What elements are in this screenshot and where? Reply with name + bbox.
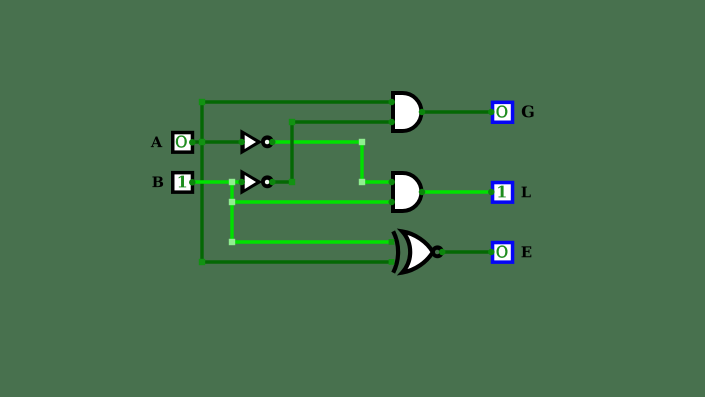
wire: top horizontal A-branch to AND G input 1 — [202, 100, 392, 103]
label G — [522, 105, 534, 117]
junction: B-bus tap at B wire — [229, 179, 235, 185]
wire: NOT1 output horizontal — [273, 140, 363, 143]
wire: B output to NOT2 input — [192, 180, 242, 183]
output pin L — [488, 183, 513, 203]
label L — [522, 187, 531, 198]
output pin E — [488, 243, 513, 263]
input pin A — [173, 133, 196, 153]
wire: vertical A-branch bus — [200, 102, 203, 262]
wire: AND L output to pin L — [422, 190, 491, 193]
value G=0 — [497, 106, 507, 118]
label B — [152, 177, 163, 188]
label A — [151, 137, 163, 148]
XNOR gate U5 (output E) — [389, 231, 446, 272]
value E=0 — [497, 246, 507, 258]
junction: A-bus tap at A wire — [199, 139, 205, 145]
wire: A output to NOT1 input — [192, 140, 242, 143]
wire: XNOR output to pin E — [442, 250, 492, 253]
wire: AND G output to pin G — [422, 110, 491, 113]
value L=1 — [498, 186, 506, 198]
junction: B-bus tap at AND L input wire — [229, 199, 235, 205]
AND gate U4 (output L) — [388, 173, 425, 211]
label E — [522, 246, 532, 257]
value A=0 — [176, 136, 186, 148]
junction: B-bus bottom corner — [229, 239, 235, 245]
AND gate U3 (output G) — [388, 93, 425, 131]
inverter U1 (NOT gate, A row) — [238, 129, 275, 155]
input pin B — [173, 173, 196, 193]
wire: bottom horizontal A-branch to XNOR input 2 — [202, 260, 392, 263]
wire: vertical B-branch bus — [230, 182, 233, 242]
inverter U2 (NOT gate, B row) — [238, 169, 275, 195]
junction: NOT1 output elbow bottom — [359, 179, 365, 185]
junction: A-bus bottom corner — [199, 259, 205, 265]
wire: NOT2 output to AND G input 2 — [292, 120, 392, 123]
wire: NOT2 output vertical rise — [290, 122, 293, 182]
wire: NOT2 output stub — [273, 180, 293, 183]
junction: NOT2 output elbow bottom — [289, 179, 295, 185]
value B=1 — [179, 176, 187, 188]
wire: NOT1 output to AND L input 1 — [362, 180, 392, 183]
junction: NOT2 output elbow top — [289, 119, 295, 125]
wire: B-branch to AND L input 2 — [232, 200, 392, 203]
wire: NOT1 output vertical drop — [360, 142, 363, 182]
junction: NOT1 output elbow top — [359, 139, 365, 145]
junction: A-bus top corner — [199, 99, 205, 105]
output pin G — [488, 102, 513, 122]
wire: B-branch to XNOR input 1 — [232, 240, 392, 243]
